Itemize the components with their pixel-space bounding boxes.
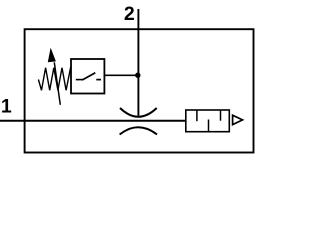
port 2 line [137,9,139,116]
junction dot [135,73,140,78]
venturi lower arc [120,127,157,134]
svg-text:2: 2 [124,3,135,25]
switch contact left lead [76,79,83,81]
spring [38,67,70,91]
switch contact blade [82,73,95,80]
silencer baffle left (from top) [196,110,198,121]
pressure switch box [71,59,104,94]
silencer baffle right (from top) [220,110,222,121]
adjustment arrow head [48,49,55,61]
silencer body [186,110,230,132]
switch contact right terminal [96,79,101,81]
exhaust triangle [233,115,243,124]
svg-text:1: 1 [1,96,12,118]
wire switch box to node [105,74,139,76]
venturi upper arc [120,108,157,117]
silencer baffle middle (from bottom) [208,120,210,132]
enclosure frame [25,29,254,152]
port 1 line [0,120,186,122]
adjustment arrow shaft [54,62,60,105]
